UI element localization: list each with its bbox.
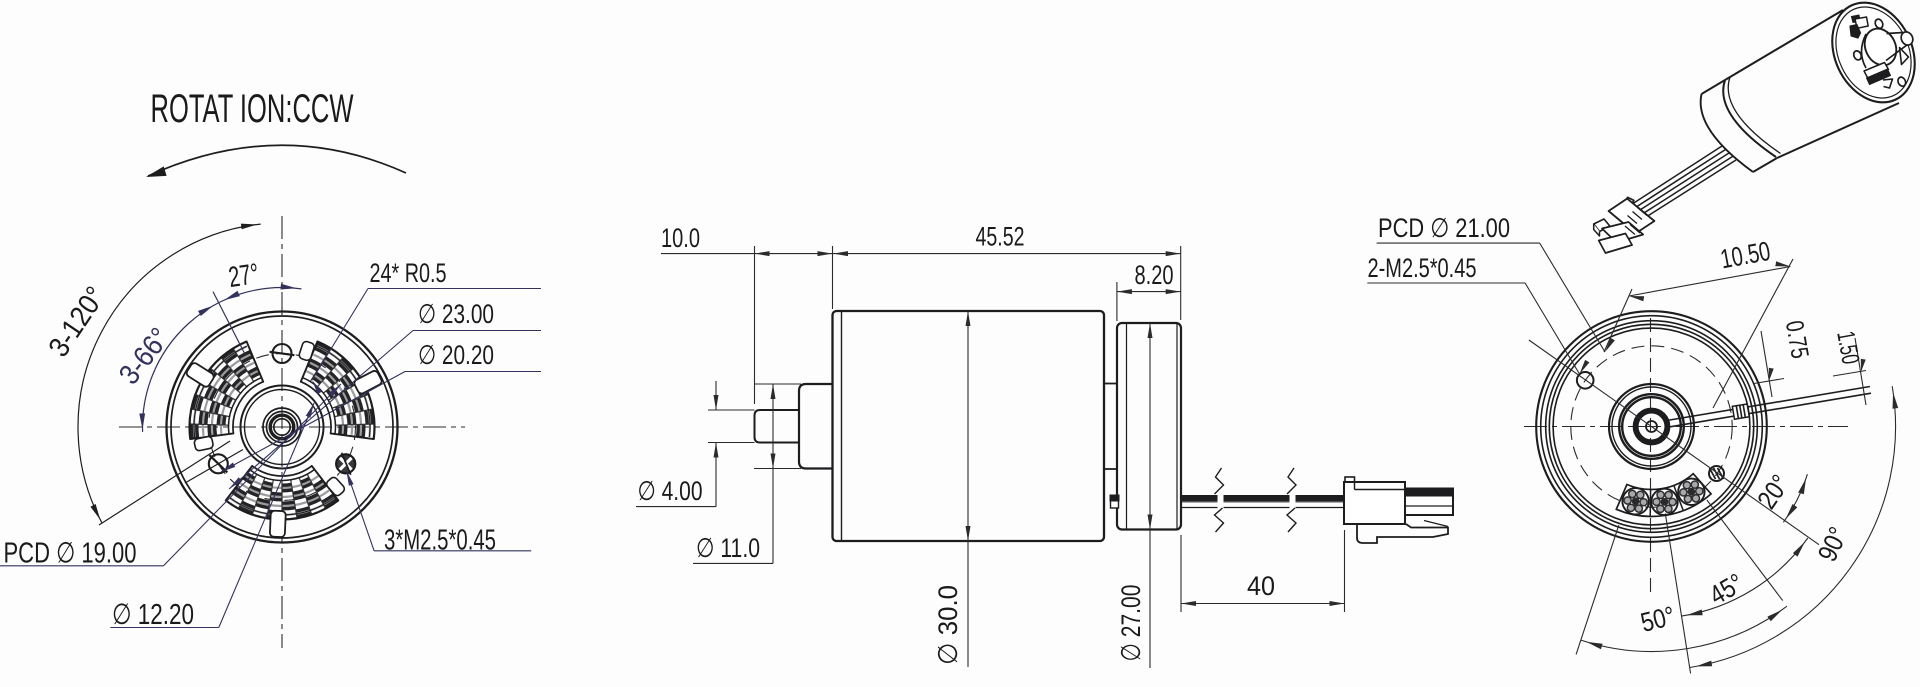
svg-text:24* R0.5: 24* R0.5 [370, 258, 447, 288]
terminal pad block [1616, 474, 1711, 517]
hub circles [241, 386, 324, 469]
connector (side view) [1344, 477, 1453, 543]
stator winding segment 3 [226, 466, 346, 537]
shaft stub [1886, 33, 1907, 61]
terminal flower at -58.6 [1678, 479, 1704, 505]
shaft [755, 410, 800, 443]
leader dia 12.20 [110, 627, 218, 629]
body front flange line [841, 312, 843, 541]
dimension 45.52 [1180, 246, 1182, 320]
svg-text:10.0: 10.0 [661, 223, 700, 253]
radial line through lower-left screw [185, 450, 243, 484]
right view: motor rear face [1367, 213, 1898, 673]
cylinder body side lines [1725, 10, 1843, 80]
end cap [1117, 323, 1181, 530]
dimension dia 27.00 [1149, 323, 1151, 668]
face circle [171, 316, 393, 538]
leader PCD dia 19.00 [0, 565, 164, 567]
body back seam arcs [1723, 80, 1776, 157]
svg-text:8.20: 8.20 [1135, 260, 1174, 290]
dimension arc 50deg [1581, 606, 1787, 651]
mounting screw hole lower-left [209, 454, 228, 473]
notch right [1900, 48, 1909, 65]
dimension dia 11.0 [754, 383, 801, 385]
PCD dashed circle [209, 354, 356, 501]
svg-text:3*M2.5*0.45: 3*M2.5*0.45 [384, 525, 496, 557]
screw axis reference line [1529, 340, 1819, 545]
dimension arc 20deg [1783, 474, 1807, 522]
svg-text:27°: 27° [227, 258, 261, 294]
svg-text:45.52: 45.52 [976, 222, 1025, 252]
dimension 0.75 [1754, 379, 1784, 384]
dimension 8.20 [1116, 282, 1118, 321]
dimension 10.50 [1629, 267, 1791, 297]
centerline vertical [1650, 318, 1652, 592]
svg-text:∅ 30.0: ∅ 30.0 [933, 585, 963, 665]
reference line -53deg [1707, 500, 1783, 601]
radial reference line 117 deg [213, 292, 245, 354]
leader dia 20.20 [405, 371, 541, 373]
dimension dia 4.00 [708, 409, 755, 411]
dimension arc 90deg [1690, 386, 1896, 667]
leader 3*M2.5*0.45 [374, 550, 531, 552]
rear housing rings [1536, 311, 1767, 542]
leader 24* R0.5 [368, 288, 541, 290]
lead wires [1181, 495, 1218, 501]
centerline vertical [281, 216, 283, 648]
svg-text:2-M2.5*0.45: 2-M2.5*0.45 [1368, 253, 1477, 283]
svg-text:∅ 4.00: ∅ 4.00 [638, 476, 703, 506]
centerline horizontal [119, 426, 465, 428]
reference line -81deg [1665, 513, 1690, 673]
connector left box [1594, 219, 1610, 232]
outer housing circle [167, 312, 398, 543]
connector latch [1357, 524, 1448, 543]
mounting screw hole top [270, 344, 295, 363]
screw hole upper-left [1577, 372, 1594, 389]
wire break symbols [1215, 468, 1224, 494]
leader dia 23.00 [413, 330, 541, 332]
svg-text:∅ 27.00: ∅ 27.00 [1116, 585, 1146, 662]
connector middle block [1602, 222, 1643, 243]
dimension arc 27/66 deg [143, 288, 302, 432]
motor body [833, 311, 1105, 541]
dimension 40 [1180, 535, 1182, 612]
isometric 3D view [1594, 0, 1920, 253]
bearing boss [1862, 34, 1867, 68]
svg-text:40: 40 [1247, 571, 1275, 601]
svg-text:PCD ∅ 21.00: PCD ∅ 21.00 [1378, 213, 1510, 243]
shaft boss [799, 384, 833, 469]
stator winding segment 1 [298, 340, 383, 439]
dark tab lower [1864, 63, 1889, 79]
leader 2-M2.5*0.45 [1367, 282, 1525, 284]
reference line to 120 arc end [99, 441, 230, 525]
terminal flower at -102 [1622, 488, 1648, 514]
dark tab upper-left [1851, 15, 1860, 23]
reference line -108deg [1576, 525, 1619, 654]
svg-text:∅ 11.0: ∅ 11.0 [696, 533, 760, 563]
neck between body and cap [1104, 383, 1117, 385]
connector bottom plate [1599, 234, 1632, 254]
hub circles [1609, 384, 1694, 469]
stator winding segment 2 [185, 342, 263, 452]
wire solder block (hatched) [1732, 404, 1749, 419]
dimension dia 30.0 [967, 311, 969, 667]
svg-text:∅ 23.00: ∅ 23.00 [418, 299, 494, 329]
face holes [1874, 18, 1884, 30]
terminal flower at -80.2 [1651, 489, 1677, 515]
wire grommet [1111, 496, 1119, 509]
svg-text:∅ 12.20: ∅ 12.20 [112, 599, 194, 631]
svg-text:∅ 20.20: ∅ 20.20 [418, 340, 494, 370]
middle view: motor side [636, 222, 1453, 669]
dimension arc 45deg [1682, 538, 1808, 616]
svg-text:1.50: 1.50 [1831, 329, 1864, 366]
rear cap section [1702, 80, 1726, 94]
rear lead wire [1667, 387, 1870, 421]
svg-text:PCD ∅ 19.00: PCD ∅ 19.00 [4, 538, 137, 570]
dimension 10.0 [754, 246, 756, 404]
left view: motor front face [0, 87, 541, 648]
dimension arc 3-120 deg [78, 224, 261, 523]
connector main body [1609, 199, 1655, 234]
iso wires (5 lines) [1633, 146, 1722, 204]
dimension 1.50 [1833, 371, 1866, 377]
centerline horizontal [1524, 426, 1848, 428]
svg-text:ROTAT ION:CCW: ROTAT ION:CCW [151, 87, 354, 131]
front face ellipse [1817, 0, 1920, 116]
leader PCD dia 21.00 [1377, 242, 1540, 244]
screw hole lower-right (hatched) [1709, 466, 1724, 481]
connector latch box [1623, 197, 1634, 206]
rotation direction arc CCW [148, 145, 406, 176]
PCD dashed circle [1571, 346, 1732, 507]
mounting screw hole lower-right [336, 453, 355, 475]
